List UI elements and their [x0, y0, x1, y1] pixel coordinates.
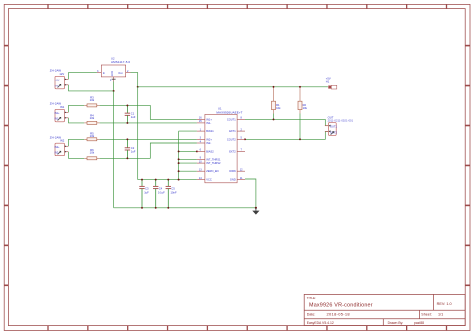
svg-text:Drawn By:: Drawn By:	[388, 321, 404, 325]
wire BIAS2 to U1 pin 6	[179, 150, 197, 152]
svg-text:IN2-: IN2-	[55, 153, 60, 155]
resistor R4 10k series IN1-	[84, 114, 99, 125]
wire IN1- from J2 pin 2 through R4 to U1 pin 15	[69, 118, 197, 123]
svg-text:MAX9926UAEE+T: MAX9926UAEE+T	[216, 111, 242, 115]
regulator U2 AMS1117-5.0	[97, 56, 131, 81]
resistor R2 10k pullup COUT2	[298, 87, 308, 139]
svg-text:10nF: 10nF	[171, 191, 177, 195]
svg-text:VCC: VCC	[206, 178, 212, 182]
node C2 bottom junction (127.4,158.3)	[126, 157, 128, 159]
wire GND from U2 pin 1 down to node A	[113, 82, 115, 91]
svg-text:Sheet:: Sheet:	[421, 313, 431, 317]
wire COUT1 from U1 pin 8 to OUT pin 1	[245, 119, 328, 125]
svg-text:IN1: IN1	[60, 105, 65, 109]
node C5 bottom junction (168.3,207.8)	[167, 207, 169, 209]
svg-text:10k: 10k	[90, 98, 95, 102]
wire IN2+ from J3 pin 1 through R5 to U1 pin 3	[69, 139, 197, 146]
svg-text:1/1: 1/1	[438, 313, 443, 317]
svg-text:IN2+: IN2+	[206, 137, 212, 141]
svg-text:AMS1117-5.0: AMS1117-5.0	[111, 60, 130, 64]
svg-text:10k: 10k	[303, 106, 308, 110]
node R1/COUT1 junction (273.5,119.4)	[273, 118, 275, 120]
wire IN2- from J3 pin 2 through R6 to U1 pin 4	[69, 143, 197, 158]
node R2/+5V junction (300,86.8)	[299, 86, 301, 88]
node R2/COUT2 junction (300,139.3)	[299, 138, 301, 140]
svg-text:Out: Out	[118, 71, 122, 75]
node C1 top junction (127.4,105.4)	[126, 104, 128, 106]
svg-text:INT_THRS2: INT_THRS2	[206, 161, 221, 165]
node GND junction (255.9,207.8)	[255, 207, 257, 209]
wire +5V from U2 Out to node B	[131, 73, 138, 87]
wire GND vertical rail x=113.6	[113, 91, 115, 208]
svg-text:COUT1: COUT1	[227, 117, 236, 121]
svg-text:BIAS1: BIAS1	[206, 129, 214, 133]
connector OUT 2-pin output	[325, 116, 354, 136]
node C2 top junction (127.4,139.3)	[126, 138, 128, 140]
capacitor C2 1uF across IN2	[125, 139, 136, 158]
svg-text:IN1+: IN1+	[206, 117, 212, 121]
svg-text:COUT2: COUT2	[227, 137, 236, 141]
wire COUT2 from U1 pin 5 to OUT pin 2	[245, 131, 328, 139]
svg-text:EXT1: EXT1	[229, 129, 236, 133]
resistor R1 10k pullup COUT1	[272, 87, 282, 119]
node C3 top junction (142,179.6)	[141, 179, 143, 181]
svg-text:Max9926 VR-conditioner: Max9926 VR-conditioner	[309, 302, 373, 308]
svg-text:DIRN: DIRN	[229, 169, 235, 173]
svg-text:IN2+: IN2+	[55, 147, 61, 149]
node INT_THRS1 junction (178.6,159.3)	[178, 158, 180, 160]
svg-text:INT_THRS1: INT_THRS1	[206, 157, 221, 161]
svg-text:2018-05-18: 2018-05-18	[327, 312, 351, 317]
svg-text:10k: 10k	[90, 134, 95, 138]
node C3 bottom junction (142,207.8)	[141, 207, 143, 209]
capacitor C5 10nF decoupling	[166, 180, 177, 208]
svg-text:IN1+: IN1+	[55, 113, 61, 115]
svg-text:C4: C4	[159, 187, 163, 191]
svg-text:10k: 10k	[276, 106, 281, 110]
svg-text:pazi88: pazi88	[414, 321, 424, 325]
svg-text:C1: C1	[131, 111, 135, 115]
node R1/+5V junction (273.5,86.8)	[273, 86, 275, 88]
svg-text:C2: C2	[131, 146, 135, 150]
wire INT_THRS2 to U1 pin 10	[179, 162, 197, 164]
svg-text:OUT: OUT	[328, 116, 334, 120]
wire IN1+ from J2 pin 1 through R3 to U1 pin 16	[69, 105, 197, 119]
svg-text:REV: 1.0: REV: 1.0	[437, 302, 452, 306]
svg-text:C5: C5	[171, 187, 175, 191]
wire BIAS vertical rail x=178.6	[178, 131, 180, 180]
node A junction (113.6,90.9)	[113, 90, 115, 92]
wire ZERO_EN to U1 pin 13	[179, 170, 197, 172]
header H1 +5V	[326, 77, 337, 89]
capacitor C4 0.1uF decoupling	[153, 180, 165, 208]
svg-text:BIAS2: BIAS2	[206, 149, 214, 153]
node VCC rail junction (178.6,179.6)	[178, 179, 180, 181]
svg-text:ZERO_EN: ZERO_EN	[206, 169, 218, 173]
svg-text:1uF: 1uF	[144, 191, 149, 195]
node COUT2 pin-end dot (245,139.3)	[244, 138, 246, 140]
svg-text:EasyEDA V5.4.12: EasyEDA V5.4.12	[307, 321, 334, 325]
svg-text:IN1-: IN1-	[55, 119, 60, 121]
svg-text:+12V: +12V	[55, 80, 60, 82]
resistor R5 10k series IN2+	[84, 131, 99, 141]
wire +5V vertical rail x=137.7	[137, 87, 139, 180]
svg-text:GND: GND	[55, 86, 60, 88]
svg-text:10k: 10k	[90, 116, 95, 120]
svg-text:1uF: 1uF	[131, 115, 136, 119]
node B junction (137.7,86.8)	[137, 86, 139, 88]
title block	[304, 294, 465, 325]
wire +12V from J1 pin 1 to U2 In	[69, 73, 97, 80]
svg-text:1uF: 1uF	[131, 150, 136, 154]
svg-text:IN2: IN2	[60, 139, 65, 143]
capacitor C1 1uF across IN1	[125, 105, 136, 123]
resistor R3 10k series IN1+	[84, 95, 99, 107]
ground	[252, 208, 259, 215]
svg-text:OUT1: OUT1	[330, 125, 337, 129]
svg-text:12V: 12V	[59, 72, 64, 76]
svg-text:C3: C3	[145, 187, 149, 191]
svg-text:GND: GND	[230, 178, 236, 182]
svg-text:EXT2: EXT2	[229, 149, 236, 153]
op-amp U1 MAX9926UAEE+T VR interface IC	[197, 106, 245, 182]
svg-text:0.1uF: 0.1uF	[158, 191, 165, 195]
svg-text:IN1-: IN1-	[206, 121, 211, 125]
node ZERO_EN junction (178.6,171.2)	[178, 170, 180, 172]
wire GND from J1 pin 2 to node A	[69, 85, 114, 91]
svg-text:IN2-: IN2-	[206, 141, 211, 145]
svg-text:H1: H1	[326, 80, 330, 84]
node C4 bottom junction (155.7,207.8)	[155, 207, 157, 209]
connector J3 ZH-2AW IN2 input	[50, 136, 68, 156]
svg-text:10k: 10k	[90, 151, 95, 155]
connector J2 ZH-2AW IN1 input	[50, 102, 68, 122]
node C5 top junction (168.3,179.6)	[167, 179, 169, 181]
node BIAS2 pin-end dot (196.9,151.4)	[196, 150, 198, 152]
wire BIAS1 to U1 pin 1	[179, 130, 197, 132]
wire INT_THRS1 to U1 pin 9	[179, 158, 197, 160]
resistor R6 10k series IN2-	[84, 148, 99, 160]
node INT_THRS2 junction (178.6,163.1)	[178, 162, 180, 164]
wire +5V to U1 VCC pin 14 y=179.6	[138, 179, 197, 181]
svg-text:GND: GND	[111, 71, 114, 77]
node C1 bottom junction (127.4,122.9)	[126, 122, 128, 124]
capacitor C3 1uF decoupling	[139, 180, 149, 208]
connector J1 ZH-2AW 12V input	[50, 69, 68, 89]
wire GND from U1 pin 11 to ground	[245, 179, 256, 208]
node C4 top junction (155.7,179.6)	[155, 179, 157, 181]
svg-text:Date:: Date:	[307, 313, 316, 317]
svg-text:2011-0211-0021-001: 2011-0211-0021-001	[328, 120, 354, 122]
node BIAS2 junction (178.6,151.4)	[178, 150, 180, 152]
svg-text:TITLE:: TITLE:	[307, 296, 316, 300]
wire +5V horizontal rail to header H1	[138, 86, 328, 88]
wire GND bottom bus y=207.8	[114, 207, 256, 209]
